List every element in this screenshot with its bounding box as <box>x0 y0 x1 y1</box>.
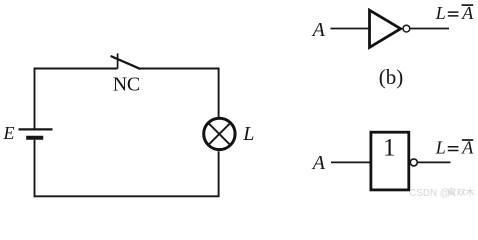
svg-text:A: A <box>311 152 326 174</box>
overline for A (bottom) <box>462 139 473 141</box>
inverter bubble (bottom gate) <box>410 159 417 166</box>
svg-text:L: L <box>242 123 254 145</box>
switch NC: fixed contact tick <box>117 53 119 68</box>
wire: output of IEC inverter U2 <box>418 161 451 163</box>
lamp L: cross stroke 1 <box>208 123 230 145</box>
svg-text:(b): (b) <box>379 65 404 89</box>
wire: top-right segment of loop <box>139 69 219 118</box>
wire: input to IEC inverter U2 <box>331 161 370 163</box>
svg-text:L: L <box>435 3 446 23</box>
wire: top-left segment of loop <box>35 69 118 129</box>
wire: output of inverter U1 <box>411 28 450 30</box>
svg-text:A: A <box>311 19 326 41</box>
battery E: short thick plate (-) <box>26 136 43 140</box>
overline for A (top) <box>462 4 474 6</box>
op-amp style inverter triangle U1 <box>370 10 401 47</box>
svg-text:A: A <box>461 3 474 23</box>
switch NC: blade <box>111 56 141 69</box>
svg-text:1: 1 <box>383 134 396 161</box>
svg-text:NC: NC <box>113 74 140 96</box>
watermark CSDN <box>409 187 474 199</box>
IEC inverter box U2 <box>371 132 409 190</box>
lamp L: cross stroke 2 <box>208 123 230 145</box>
svg-text:CSDN @: CSDN @ <box>409 188 449 199</box>
battery E: long plate (+) <box>19 128 53 130</box>
svg-text:E: E <box>3 123 15 143</box>
inverter bubble (top gate) <box>403 25 410 32</box>
lamp L: circle <box>204 118 235 149</box>
svg-text:L: L <box>435 138 446 158</box>
wire: bottom loop segment <box>35 140 219 197</box>
wire: input to inverter U1 <box>331 28 370 30</box>
